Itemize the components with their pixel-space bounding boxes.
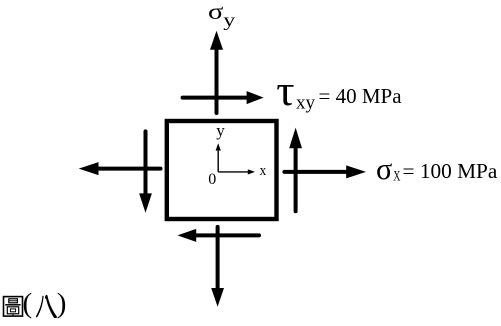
svg-text:= 100 MPa: = 100 MPa [403,159,498,183]
svg-text:x: x [260,163,267,179]
svg-text:): ) [57,288,67,320]
svg-text:y: y [216,121,225,140]
svg-text:0: 0 [208,171,216,188]
svg-text:xy: xy [296,92,316,113]
svg-text:τ: τ [276,68,294,115]
svg-text:X: X [393,169,401,185]
svg-text:σ: σ [376,151,393,186]
svg-text:σ: σ [208,0,224,24]
svg-text:(: ( [23,288,33,320]
svg-text:y: y [223,10,235,30]
svg-text:= 40 MPa: = 40 MPa [319,84,403,108]
